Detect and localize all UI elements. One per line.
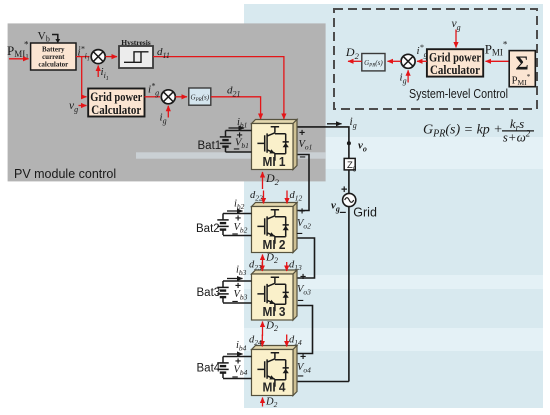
svg-text:+: +	[299, 127, 305, 139]
svg-text:Bat3: Bat3	[197, 287, 221, 299]
svg-text:Bat2: Bat2	[196, 223, 220, 235]
svg-text:System-level Control: System-level Control	[409, 87, 508, 101]
svg-text:Calculator: Calculator	[430, 62, 480, 77]
svg-text:–: –	[340, 205, 347, 219]
svg-text:MI 1: MI 1	[263, 155, 286, 169]
svg-text:–: –	[300, 151, 306, 163]
svg-text:Bat4: Bat4	[197, 363, 221, 375]
svg-text:MI 3: MI 3	[263, 305, 286, 319]
svg-text:calculator: calculator	[38, 61, 68, 69]
svg-text:–: –	[232, 296, 238, 308]
svg-text:–: –	[232, 228, 238, 240]
svg-text:Grid: Grid	[353, 206, 377, 220]
svg-text:PV module control: PV module control	[14, 167, 116, 181]
svg-text:Hystresis: Hystresis	[121, 38, 151, 47]
svg-text:–: –	[232, 371, 238, 383]
svg-text:–: –	[297, 228, 303, 240]
svg-text:–: –	[298, 370, 304, 382]
svg-text:–: –	[298, 295, 304, 307]
svg-text:Calculator: Calculator	[91, 102, 141, 117]
svg-text:Bat1: Bat1	[198, 140, 222, 152]
svg-text:MI 4: MI 4	[263, 381, 286, 395]
svg-text:+: +	[299, 206, 305, 218]
svg-text:+: +	[300, 271, 306, 283]
svg-text:*: *	[24, 40, 29, 50]
svg-text:–: –	[234, 143, 240, 155]
svg-text:MI 2: MI 2	[263, 238, 286, 252]
